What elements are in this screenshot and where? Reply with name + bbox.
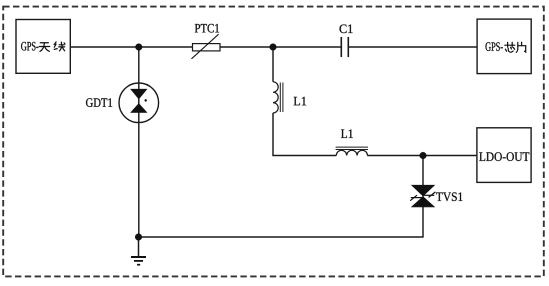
wire: L1 horizontal to LDO-OUT: [367, 155, 477, 157]
label PTC1: [195, 24, 219, 33]
wire: L1 vertical branch top: [272, 47, 274, 82]
label GPS- (chip): [486, 42, 503, 51]
node junction dot (PTC/L1): [270, 44, 277, 51]
box GPS-天线: [16, 20, 70, 74]
wire: corner to L1 horizontal: [272, 155, 336, 157]
TVS diode TVS1: [412, 185, 435, 196]
box LDO-OUT: [477, 128, 531, 183]
glyph 片: [516, 42, 526, 52]
node junction dot (antenna/GDT): [135, 44, 142, 51]
label GDT1: [86, 98, 112, 107]
label TVS1: [436, 192, 462, 201]
wire: PTC1 to C1: [220, 46, 341, 48]
label GPS- (antenna): [21, 42, 38, 51]
wire: ground stub: [138, 237, 140, 257]
glyph 天: [39, 43, 49, 52]
node junction dot (L1/TVS): [420, 152, 427, 159]
inductor L1 (vertical): [273, 82, 278, 113]
wire: C1 to GPS-chip: [349, 46, 477, 48]
wire: GDT1 branch vertical: [138, 47, 140, 237]
ground: [131, 256, 146, 258]
capacitor C1: [340, 37, 342, 57]
glyph 芯: [505, 42, 515, 52]
inductor L1 (horizontal): [336, 150, 367, 155]
wire: TVS1 vertical: [422, 156, 424, 238]
box GPS-芯片: [477, 19, 531, 74]
wire: GPS-antenna to PTC1: [70, 46, 192, 48]
label L1 (horizontal inductor): [341, 130, 353, 138]
node junction dot (ground bus): [135, 234, 142, 241]
label LDO-OUT: [479, 152, 529, 161]
glyph 线: [54, 42, 65, 51]
PTC thermistor PTC1: [193, 44, 221, 51]
gas discharge tube GDT1: [119, 83, 159, 123]
wire: L1 vertical bottom to corner: [272, 113, 274, 156]
label L1 (vertical inductor): [294, 97, 307, 106]
wire: bottom ground bus: [138, 236, 423, 238]
label C1: [340, 25, 353, 34]
